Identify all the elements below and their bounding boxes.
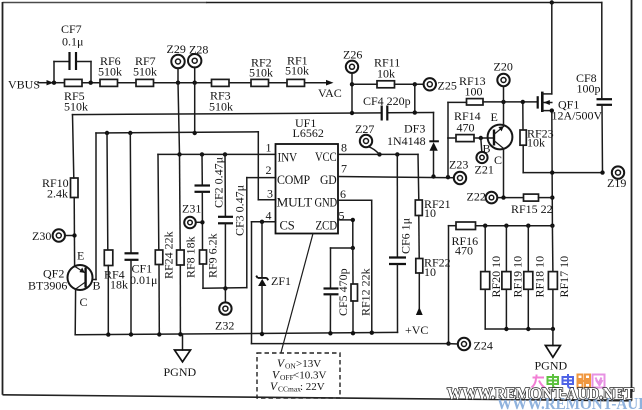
svg-text:8: 8 xyxy=(341,141,347,155)
svg-text:E: E xyxy=(491,110,498,124)
wire GND pin6 xyxy=(338,200,372,332)
svg-text:ZF1: ZF1 xyxy=(271,274,291,288)
resistor RF2 xyxy=(249,56,273,87)
svg-text:CF5 470p: CF5 470p xyxy=(336,268,350,316)
svg-text:18k: 18k xyxy=(110,278,128,292)
zener ZF1 xyxy=(256,222,291,334)
test point Z29 xyxy=(167,42,186,83)
svg-text:OFF: OFF xyxy=(280,373,294,382)
node +VC supply stub xyxy=(405,273,428,337)
svg-text:Z32: Z32 xyxy=(215,319,234,333)
svg-text:RF15 22: RF15 22 xyxy=(511,202,553,216)
wire Z28 branch down to COMP line xyxy=(194,83,196,133)
svg-text:C: C xyxy=(80,295,88,309)
svg-text:Z21: Z21 xyxy=(475,163,494,177)
svg-text:510k: 510k xyxy=(133,65,157,79)
ground PGND right xyxy=(535,329,568,373)
resistor RF4 xyxy=(104,133,128,335)
wire bottom link y288 RF9 CF3 to COMP branch xyxy=(203,287,247,290)
test point Z23 xyxy=(449,158,468,185)
svg-text:ZCD: ZCD xyxy=(316,219,338,233)
svg-text:VCC: VCC xyxy=(315,150,337,164)
op-amp U1 -- IC UF1 L6562 box xyxy=(276,116,339,234)
svg-text:CF2 0.47μ: CF2 0.47μ xyxy=(212,157,226,208)
resistor RF7 xyxy=(133,54,157,86)
svg-text:RF8 18k: RF8 18k xyxy=(184,236,198,278)
svg-text:12A/500V: 12A/500V xyxy=(552,109,603,123)
svg-text:INV: INV xyxy=(278,151,298,165)
test point Z30 xyxy=(32,229,75,243)
svg-text:RF19 10: RF19 10 xyxy=(511,256,525,298)
resistor RF21 xyxy=(415,197,450,259)
svg-text:B: B xyxy=(93,279,101,293)
svg-text:RF9 6.2k: RF9 6.2k xyxy=(206,233,220,278)
svg-text:RF24 22k: RF24 22k xyxy=(162,231,176,279)
svg-text:4: 4 xyxy=(266,209,272,223)
resistor RF8 xyxy=(177,154,198,334)
svg-text:0.01μ: 0.01μ xyxy=(130,273,157,287)
svg-text:Z22: Z22 xyxy=(467,190,486,204)
wire Z25 junction down xyxy=(414,84,416,112)
wire main ground line xyxy=(75,332,397,334)
svg-text:10: 10 xyxy=(424,265,436,279)
capacitor CF3 xyxy=(218,154,247,288)
node VBUS label and arrow xyxy=(8,78,54,92)
svg-text:510k: 510k xyxy=(209,100,233,114)
svg-text:3: 3 xyxy=(267,187,273,201)
wire QF2 base to COMP rail xyxy=(95,133,97,280)
svg-text:6: 6 xyxy=(340,187,346,201)
svg-text:Z23: Z23 xyxy=(449,158,468,172)
svg-text:10k: 10k xyxy=(377,67,395,81)
svg-text:Z30: Z30 xyxy=(32,229,51,243)
wire INV line y154 xyxy=(158,154,276,250)
wire RF13 RF14 junction branch xyxy=(448,102,456,177)
svg-text:Z29: Z29 xyxy=(167,42,186,56)
svg-text:COMP: COMP xyxy=(277,173,310,187)
test point Z22 xyxy=(467,190,524,204)
node VAC arrow and label xyxy=(318,80,342,100)
wire top bus VBUS to VAC xyxy=(52,82,330,84)
svg-text:RF17 10: RF17 10 xyxy=(557,256,571,298)
callout diagonal line xyxy=(281,234,313,353)
test point Z27 xyxy=(355,122,380,154)
wire pin4 CS stub xyxy=(252,222,276,344)
svg-text:Z26: Z26 xyxy=(343,48,362,62)
svg-text:1N4148: 1N4148 xyxy=(387,134,426,148)
test point Z20 xyxy=(494,60,513,102)
svg-text:510k: 510k xyxy=(64,100,88,114)
svg-text:: 22V: : 22V xyxy=(300,381,325,393)
resistor RF22 xyxy=(416,256,451,280)
svg-text:CS: CS xyxy=(280,219,295,233)
wire GD pin7 line xyxy=(338,177,454,178)
resistor RF23 xyxy=(520,102,603,173)
svg-text:RF12 22k: RF12 22k xyxy=(359,268,373,316)
capacitor CF2 xyxy=(195,154,226,250)
svg-text:2.4k: 2.4k xyxy=(47,187,68,201)
svg-text:L6562: L6562 xyxy=(293,126,324,140)
wire COMP aux branch pin2 down xyxy=(247,178,276,288)
svg-text:CF6 1μ: CF6 1μ xyxy=(399,218,413,254)
svg-text:Z24: Z24 xyxy=(474,339,493,353)
svg-text:Z27: Z27 xyxy=(355,122,374,136)
wire CS sense line y344 xyxy=(252,343,449,345)
svg-text:BT3906: BT3906 xyxy=(28,279,67,293)
resistor RF3 xyxy=(209,79,233,113)
svg-text:100p: 100p xyxy=(577,82,601,96)
svg-text:RF18 10: RF18 10 xyxy=(533,256,547,298)
wire VCC pin8 line xyxy=(338,154,419,200)
svg-text:PGND: PGND xyxy=(164,365,197,379)
svg-text:Z19: Z19 xyxy=(607,176,626,190)
wire Z29 branch down to INV line xyxy=(178,83,180,155)
wire RF16 branch down to CS line xyxy=(448,226,450,344)
resistor RF16 xyxy=(449,222,553,258)
test point Z28 xyxy=(188,43,208,83)
diode DF3 1N4148 xyxy=(387,113,439,177)
resistor RF12 xyxy=(351,248,373,333)
svg-text:E: E xyxy=(77,249,84,263)
svg-text:RF20 10: RF20 10 xyxy=(489,256,503,298)
svg-text:0.1μ: 0.1μ xyxy=(62,35,83,49)
svg-text:VBUS: VBUS xyxy=(8,78,40,92)
svg-text:470: 470 xyxy=(455,244,473,258)
svg-text:2: 2 xyxy=(266,163,272,177)
svg-text:510k: 510k xyxy=(98,65,122,79)
svg-text:PGND: PGND xyxy=(535,359,568,373)
svg-text:GND: GND xyxy=(315,196,338,210)
wire COMP rail y133 xyxy=(96,132,258,133)
test point Z24 xyxy=(449,338,493,353)
junction dots on bus xyxy=(52,81,56,85)
ground PGND left xyxy=(164,334,197,379)
svg-text:510k: 510k xyxy=(249,66,273,80)
svg-text:WWW.REMONT-AUD.NET: WWW.REMONT-AUD.NET xyxy=(447,384,634,403)
svg-text:Z31: Z31 xyxy=(182,202,201,216)
wire sense resistor bottom bus xyxy=(485,328,553,330)
svg-text:510k: 510k xyxy=(285,64,309,78)
svg-text:1: 1 xyxy=(266,141,272,155)
test point Z19 xyxy=(607,166,626,190)
note dashed box Von Voff Vccmax xyxy=(257,353,340,398)
transistor Q3 driver BJT xyxy=(488,102,513,198)
svg-text:7: 7 xyxy=(341,162,347,176)
test point Z32 xyxy=(215,288,234,332)
test point Z21 xyxy=(475,138,494,177)
resistor RF5 xyxy=(64,79,88,113)
capacitor CF5 xyxy=(324,248,351,333)
wire COMP rail into pin2 pin3 xyxy=(258,132,275,200)
resistor RF10 xyxy=(42,115,78,266)
resistor RF9 xyxy=(200,233,220,288)
test point Z31 xyxy=(182,202,202,229)
svg-text:+VC: +VC xyxy=(405,323,428,337)
svg-text:CF3 0.47μ: CF3 0.47μ xyxy=(233,185,247,236)
node drain junction on top rail xyxy=(550,0,554,4)
resistor RF18 xyxy=(524,226,547,329)
svg-text:Z20: Z20 xyxy=(494,60,513,74)
transistor QF1 MOSFET xyxy=(538,3,603,226)
svg-text:10: 10 xyxy=(424,206,436,220)
resistor RF19 xyxy=(502,226,525,329)
wire ZCD pin5 network xyxy=(331,220,353,248)
svg-text:10k: 10k xyxy=(527,136,545,150)
svg-text:MULT: MULT xyxy=(277,196,313,210)
resistor RF24 xyxy=(155,231,175,334)
resistor RF11 xyxy=(352,56,424,88)
resistor RF14 xyxy=(454,109,493,142)
svg-text:Z25: Z25 xyxy=(438,79,457,93)
test point Z26 xyxy=(343,48,362,114)
resistor RF1 xyxy=(285,54,309,87)
transistor QF2 BT3906 xyxy=(28,249,101,335)
capacitor CF1 xyxy=(125,133,158,335)
wire top rail to CF8 xyxy=(207,3,602,98)
svg-text:CCmax: CCmax xyxy=(278,385,301,394)
svg-text:470: 470 xyxy=(457,121,475,135)
svg-text:VAC: VAC xyxy=(318,86,342,100)
svg-text:C: C xyxy=(494,153,502,167)
wire supply rail y113 xyxy=(73,113,434,115)
capacitor CF7 xyxy=(54,22,91,83)
svg-text:GD: GD xyxy=(320,173,337,187)
svg-text:<10.3V: <10.3V xyxy=(293,370,326,382)
resistor RF20 xyxy=(481,226,503,329)
resistor RF17 xyxy=(548,226,571,329)
resistor RF13 xyxy=(448,74,538,105)
resistor RF15 xyxy=(511,194,553,216)
capacitor CF4 xyxy=(363,94,411,121)
capacitor CF6 xyxy=(389,154,413,332)
watermark chinese characters xyxy=(532,374,605,388)
svg-text:>13V: >13V xyxy=(296,358,321,370)
resistor RF6 xyxy=(98,54,122,86)
test point Z25 xyxy=(424,78,457,92)
svg-text:100: 100 xyxy=(465,85,483,99)
capacitor CF8 xyxy=(576,71,612,173)
